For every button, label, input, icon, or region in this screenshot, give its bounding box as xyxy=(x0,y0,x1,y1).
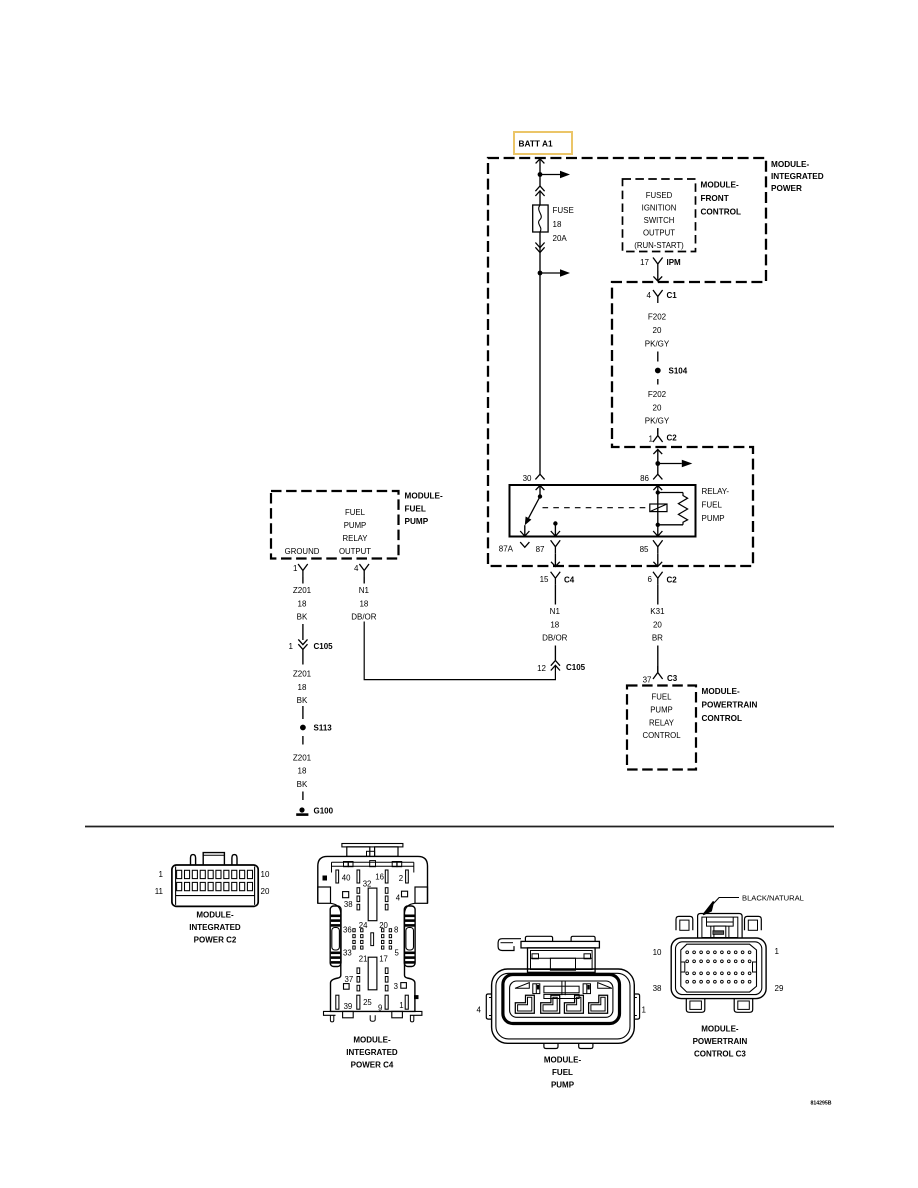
svg-text:POWER: POWER xyxy=(771,184,802,193)
svg-text:BR: BR xyxy=(652,634,663,643)
connector C1 pin 4 xyxy=(647,290,678,303)
module-integrated power boundary xyxy=(488,158,766,566)
wire down to relay xyxy=(539,254,541,475)
connector C3 caption xyxy=(693,1025,748,1059)
svg-text:1: 1 xyxy=(642,1005,647,1014)
svg-text:32: 32 xyxy=(363,880,372,889)
splice S113 xyxy=(300,724,332,733)
ground G100 xyxy=(296,807,333,816)
arrow branch right xyxy=(658,460,693,468)
arrow feed branch right xyxy=(540,171,570,179)
svg-text:1: 1 xyxy=(159,870,164,879)
wire N1 18 DB/OR xyxy=(351,586,377,622)
resistor parallel branch xyxy=(658,493,688,525)
connector double chevron xyxy=(535,243,544,253)
node BATT A1 xyxy=(514,132,572,154)
svg-text:MODULE-: MODULE- xyxy=(544,1056,582,1065)
svg-text:PK/GY: PK/GY xyxy=(645,340,670,349)
pin 85 terminal xyxy=(640,540,663,566)
svg-text:DB/OR: DB/OR xyxy=(351,613,377,622)
black/natural callout xyxy=(703,893,804,914)
svg-text:814295B: 814295B xyxy=(810,1101,831,1107)
svg-text:20: 20 xyxy=(261,887,270,896)
connector view module-fuel pump xyxy=(486,936,639,1048)
svg-text:OUTPUT: OUTPUT xyxy=(339,547,371,556)
relay common dot xyxy=(538,494,542,498)
svg-text:FUSE: FUSE xyxy=(553,206,574,215)
svg-text:33: 33 xyxy=(343,949,352,958)
splice S104 xyxy=(655,367,688,376)
svg-text:1: 1 xyxy=(289,642,294,651)
svg-text:10: 10 xyxy=(653,948,662,957)
fuel pump relay output text xyxy=(339,508,371,556)
connector C4 caption xyxy=(346,1036,398,1070)
svg-text:37: 37 xyxy=(643,676,652,685)
module-fuel pump box xyxy=(271,491,399,559)
svg-text:1: 1 xyxy=(775,947,780,956)
module-front control box xyxy=(623,179,696,252)
svg-text:OUTPUT: OUTPUT xyxy=(643,229,675,238)
svg-text:29: 29 xyxy=(775,984,784,993)
svg-text:F202: F202 xyxy=(648,390,667,399)
svg-text:38: 38 xyxy=(653,984,662,993)
svg-text:(RUN-START): (RUN-START) xyxy=(634,241,684,250)
separator line xyxy=(85,826,834,828)
svg-text:39: 39 xyxy=(344,1002,353,1011)
wire xyxy=(539,191,541,205)
wire xyxy=(539,175,541,187)
svg-text:C4: C4 xyxy=(564,576,575,585)
relay pin 30 internal arrow xyxy=(536,486,545,497)
svg-text:FUSED: FUSED xyxy=(646,191,673,200)
pin 87A terminal xyxy=(499,542,530,553)
svg-text:FUEL: FUEL xyxy=(405,505,426,514)
module-powertrain control label xyxy=(702,687,758,723)
svg-text:POWERTRAIN: POWERTRAIN xyxy=(702,701,758,710)
pin 87 terminal xyxy=(536,540,561,566)
svg-text:PUMP: PUMP xyxy=(702,514,725,523)
connector view module-integrated power C2 xyxy=(172,853,258,907)
connector fuel pump pin labels xyxy=(477,1005,647,1014)
relay-fuel pump label xyxy=(702,487,730,523)
svg-text:PUMP: PUMP xyxy=(650,706,673,715)
svg-text:9: 9 xyxy=(378,1004,382,1013)
svg-text:Z201: Z201 xyxy=(293,586,312,595)
wire with arrow into boundary xyxy=(653,271,662,282)
svg-text:RELAY-: RELAY- xyxy=(702,487,730,496)
connector IPM pin 17 xyxy=(640,258,681,271)
svg-text:BK: BK xyxy=(297,780,308,789)
svg-text:FRONT: FRONT xyxy=(701,194,729,203)
svg-text:10: 10 xyxy=(261,870,270,879)
wire Z201 18 BK xyxy=(293,670,312,706)
svg-text:6: 6 xyxy=(648,575,653,584)
svg-text:FUEL: FUEL xyxy=(345,508,366,517)
svg-text:MODULE-: MODULE- xyxy=(701,1025,739,1034)
relay pin 86 internal arrow xyxy=(653,486,662,493)
svg-text:17: 17 xyxy=(640,258,649,267)
svg-text:18: 18 xyxy=(359,600,368,609)
wire K31 20 BR xyxy=(650,607,665,643)
svg-text:C1: C1 xyxy=(667,291,678,300)
svg-text:11: 11 xyxy=(155,887,164,896)
svg-text:20: 20 xyxy=(653,404,662,413)
svg-text:16: 16 xyxy=(375,873,384,882)
svg-text:BATT A1: BATT A1 xyxy=(519,139,553,149)
svg-text:SWITCH: SWITCH xyxy=(644,216,675,225)
svg-text:MODULE-: MODULE- xyxy=(353,1036,391,1045)
svg-text:24: 24 xyxy=(359,921,368,930)
svg-text:C105: C105 xyxy=(566,663,586,672)
wire xyxy=(657,464,659,475)
connector fuel pump caption xyxy=(544,1056,582,1090)
svg-text:MODULE-: MODULE- xyxy=(405,492,443,501)
relay switch arm to 87A xyxy=(525,497,540,526)
svg-text:FUEL: FUEL xyxy=(552,1068,573,1077)
svg-text:1: 1 xyxy=(649,435,654,444)
svg-text:20: 20 xyxy=(379,921,388,930)
svg-text:PUMP: PUMP xyxy=(551,1081,575,1090)
svg-text:CONTROL: CONTROL xyxy=(701,208,741,217)
svg-text:C3: C3 xyxy=(667,674,678,683)
connector C2 caption xyxy=(189,911,241,945)
module-powertrain control box xyxy=(627,686,696,770)
fuse 18 20A xyxy=(533,205,574,243)
wire with arrow up below C2 xyxy=(653,450,662,464)
svg-text:CONTROL: CONTROL xyxy=(702,714,742,723)
svg-text:8: 8 xyxy=(394,926,398,935)
wire battery feed into module xyxy=(536,159,545,175)
svg-text:MODULE-: MODULE- xyxy=(701,181,739,190)
svg-text:18: 18 xyxy=(298,767,307,776)
svg-text:S104: S104 xyxy=(669,367,688,376)
svg-text:MODULE-: MODULE- xyxy=(702,687,740,696)
junction dot xyxy=(538,271,543,276)
connector C4 pin 15 xyxy=(540,572,575,605)
svg-text:15: 15 xyxy=(540,575,549,584)
wire xyxy=(657,646,659,673)
wire xyxy=(302,736,304,745)
svg-text:INTEGRATED: INTEGRATED xyxy=(771,172,824,181)
svg-text:MODULE-: MODULE- xyxy=(771,160,809,169)
svg-text:FUEL: FUEL xyxy=(702,501,723,510)
connector C105 pin 12 xyxy=(537,661,586,674)
sheet number xyxy=(810,1101,831,1107)
svg-text:BLACK/NATURAL: BLACK/NATURAL xyxy=(742,893,804,902)
wire Z201 18 BK xyxy=(293,754,312,790)
wire N1 18 DB/OR xyxy=(542,607,568,643)
connector double chevron xyxy=(535,186,544,196)
wire L to fuel pump module xyxy=(364,622,555,680)
svg-text:20: 20 xyxy=(653,326,662,335)
junction dot xyxy=(655,461,660,466)
coil wire xyxy=(656,490,660,527)
svg-text:PK/GY: PK/GY xyxy=(645,417,670,426)
connector view module-powertrain control C3 xyxy=(671,914,766,1013)
fuel pump relay control text xyxy=(642,693,681,741)
ground text xyxy=(285,547,320,556)
svg-text:1: 1 xyxy=(399,1001,403,1010)
svg-text:1: 1 xyxy=(293,564,298,573)
svg-text:N1: N1 xyxy=(550,607,561,616)
svg-text:IGNITION: IGNITION xyxy=(642,204,677,213)
wire xyxy=(302,706,304,719)
relay-fuel pump box xyxy=(510,485,696,537)
wire F202 20 PK/GY xyxy=(645,390,670,426)
module-front control label xyxy=(701,181,741,217)
svg-text:17: 17 xyxy=(379,955,388,964)
junction dot xyxy=(538,172,543,177)
wire xyxy=(657,428,659,435)
svg-text:2: 2 xyxy=(399,874,403,883)
connector C3 pin labels xyxy=(653,947,784,993)
svg-text:K31: K31 xyxy=(650,607,665,616)
module-integrated power label xyxy=(771,160,824,193)
svg-text:Z201: Z201 xyxy=(293,670,312,679)
svg-text:30: 30 xyxy=(523,474,532,483)
svg-text:FUEL: FUEL xyxy=(652,693,673,702)
svg-text:F202: F202 xyxy=(648,313,667,322)
svg-text:37: 37 xyxy=(345,975,354,984)
connector C2 pin labels xyxy=(155,870,270,896)
wire below fuse xyxy=(539,232,541,254)
svg-text:PUMP: PUMP xyxy=(405,517,429,526)
pin 86 entry chevron xyxy=(640,474,662,483)
connector C105 pin 1 xyxy=(289,639,334,664)
svg-text:4: 4 xyxy=(647,291,652,300)
svg-text:4: 4 xyxy=(354,564,359,573)
svg-text:18: 18 xyxy=(298,683,307,692)
svg-text:INTEGRATED: INTEGRATED xyxy=(346,1048,398,1057)
relay actuation dashed link xyxy=(543,507,650,509)
wire xyxy=(657,379,659,385)
pin 87 dot and drop xyxy=(551,521,560,536)
svg-text:36: 36 xyxy=(343,926,352,935)
connector C2 pin 1 xyxy=(649,429,678,444)
svg-text:3: 3 xyxy=(394,982,398,991)
pin 85 drop xyxy=(653,525,662,537)
connector pin 4 output xyxy=(354,564,369,584)
svg-text:18: 18 xyxy=(550,621,559,630)
fused ignition switch output text xyxy=(634,191,684,250)
svg-text:87: 87 xyxy=(536,545,545,554)
svg-text:GROUND: GROUND xyxy=(285,547,320,556)
svg-text:38: 38 xyxy=(344,900,353,909)
svg-text:25: 25 xyxy=(363,998,372,1007)
svg-text:Z201: Z201 xyxy=(293,754,312,763)
svg-text:18: 18 xyxy=(298,600,307,609)
svg-text:12: 12 xyxy=(537,664,546,673)
svg-text:20: 20 xyxy=(653,621,662,630)
svg-text:CONTROL: CONTROL xyxy=(642,731,681,740)
svg-text:S113: S113 xyxy=(314,724,333,733)
svg-text:86: 86 xyxy=(640,474,649,483)
svg-text:4: 4 xyxy=(477,1005,482,1014)
svg-text:C105: C105 xyxy=(314,642,334,651)
wire F202 20 PK/GY xyxy=(645,313,670,349)
svg-text:87A: 87A xyxy=(499,545,514,554)
svg-text:C2: C2 xyxy=(667,576,678,585)
svg-text:40: 40 xyxy=(342,874,351,883)
svg-text:N1: N1 xyxy=(359,586,370,595)
svg-text:BK: BK xyxy=(297,613,308,622)
svg-text:4: 4 xyxy=(396,894,401,903)
pin 87A drop xyxy=(520,525,529,536)
svg-text:INTEGRATED: INTEGRATED xyxy=(189,923,241,932)
wire xyxy=(302,792,304,801)
svg-text:POWER C4: POWER C4 xyxy=(351,1061,394,1070)
connector C3 pin 37 xyxy=(643,666,678,685)
svg-text:85: 85 xyxy=(640,545,649,554)
svg-text:PUMP: PUMP xyxy=(344,521,367,530)
svg-text:C2: C2 xyxy=(667,434,678,443)
svg-text:20A: 20A xyxy=(553,234,568,243)
arrow feed branch right xyxy=(540,269,570,277)
svg-text:MODULE-: MODULE- xyxy=(196,911,234,920)
svg-text:CONTROL C3: CONTROL C3 xyxy=(694,1050,746,1059)
svg-text:DB/OR: DB/OR xyxy=(542,634,568,643)
wire xyxy=(657,352,659,362)
svg-text:BK: BK xyxy=(297,696,308,705)
pin 30 entry chevron xyxy=(523,474,545,483)
svg-text:POWER C2: POWER C2 xyxy=(194,936,237,945)
wire xyxy=(302,624,304,640)
connector C2 pin 6 xyxy=(648,572,678,605)
module-fuel pump label xyxy=(405,492,443,527)
svg-text:21: 21 xyxy=(359,955,368,964)
svg-text:G100: G100 xyxy=(314,807,334,816)
connector view module-integrated power C4 xyxy=(318,844,428,1022)
svg-text:IPM: IPM xyxy=(667,258,682,267)
svg-text:RELAY: RELAY xyxy=(343,534,369,543)
connector C4 cavity numbers xyxy=(342,873,404,1013)
wire Z201 18 BK xyxy=(293,586,312,622)
svg-text:18: 18 xyxy=(553,220,562,229)
connector pin 1 ground xyxy=(293,564,308,584)
wire xyxy=(554,646,556,661)
svg-text:RELAY: RELAY xyxy=(649,719,675,728)
svg-text:5: 5 xyxy=(395,949,400,958)
svg-text:POWERTRAIN: POWERTRAIN xyxy=(693,1037,748,1046)
relay coil xyxy=(650,504,667,512)
